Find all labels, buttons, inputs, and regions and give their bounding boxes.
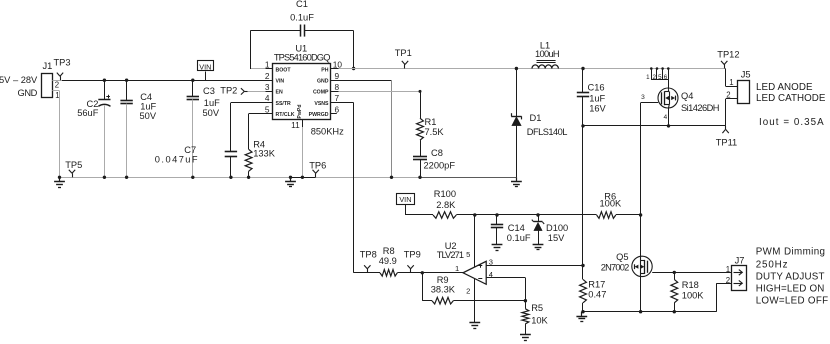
- capacitor C16 value: [589, 94, 605, 104]
- resistor R17: [580, 279, 587, 313]
- svg-text:2.8K: 2.8K: [436, 200, 456, 210]
- label DUTY ADJUST: [756, 272, 825, 283]
- ground (D100): [533, 244, 544, 249]
- transistor Q5 part number: [601, 263, 629, 273]
- U1 frequency note 850KHz: [311, 127, 344, 137]
- wire J5 pin2 to cathode line: [726, 99, 738, 126]
- test point TP6: [313, 170, 319, 178]
- svg-text:2: 2: [265, 71, 270, 81]
- svg-text:PWRGD: PWRGD: [309, 112, 329, 118]
- svg-text:TP2: TP2: [220, 86, 237, 96]
- diode D1 refdes: [530, 113, 542, 123]
- test point TP2 label: [220, 86, 237, 96]
- svg-text:C16: C16: [588, 83, 605, 93]
- svg-text:5: 5: [466, 250, 470, 259]
- capacitor C7 lead bottom: [229, 157, 232, 179]
- svg-text:VSNS: VSNS: [314, 101, 329, 107]
- capacitor C16: [577, 93, 589, 97]
- U1 pin number 5: [265, 104, 270, 114]
- capacitor C4 lead bottom: [125, 104, 128, 179]
- svg-text:3: 3: [641, 94, 645, 101]
- svg-text:VIN: VIN: [276, 79, 285, 85]
- svg-text:R18: R18: [682, 280, 699, 290]
- svg-text:16V: 16V: [589, 104, 606, 114]
- capacitor C8 lead bottom: [418, 160, 421, 179]
- svg-text:6: 6: [664, 74, 668, 81]
- svg-text:TP5: TP5: [65, 160, 82, 170]
- U1 pin number 7: [335, 93, 340, 103]
- svg-text:100K: 100K: [600, 198, 623, 208]
- resistor R6: [597, 212, 616, 219]
- U2 pin 4 wire (IN-): [486, 278, 525, 301]
- U1 pin 5 stub (RT/CLK): [266, 113, 274, 115]
- resistor R1 refdes: [425, 117, 437, 127]
- ground (D1): [511, 177, 522, 186]
- capacitor C4 rating: [140, 111, 157, 121]
- svg-text:R17: R17: [588, 279, 605, 289]
- wire TP2 to EN: [248, 91, 266, 93]
- capacitor C2 lead top: [103, 79, 106, 100]
- svg-text:2200pF: 2200pF: [424, 161, 456, 171]
- U2 pin 1 number: [455, 264, 459, 273]
- wire R8 to op-amp output: [397, 271, 463, 274]
- connector J1 refdes: [43, 61, 53, 71]
- capacitor C2 lead bottom: [103, 105, 106, 179]
- capacitor C3 value: [204, 98, 220, 108]
- U2 pin 5 wire (V+): [474, 215, 476, 267]
- wire R9 branch: [422, 273, 432, 301]
- resistor R9 refdes: [437, 275, 449, 285]
- svg-text:0.1uF: 0.1uF: [507, 233, 531, 243]
- svg-text:50V: 50V: [140, 111, 157, 121]
- J1 pin 1 stub: [52, 90, 59, 92]
- wire VSNS down: [339, 103, 354, 273]
- wire LED cathode line: [581, 124, 725, 127]
- svg-text:C7: C7: [184, 145, 196, 155]
- svg-text:TLV271: TLV271: [437, 250, 464, 260]
- zener D100 refdes: [546, 223, 568, 233]
- transistor Q4 refdes: [681, 91, 693, 101]
- wire ground rail top (dark right part): [419, 177, 517, 179]
- wire R9 to R5 node: [453, 299, 527, 302]
- U1 pin name BOOT: [276, 67, 292, 73]
- U1 pin number 11: [291, 120, 300, 130]
- capacitor C2: [98, 95, 110, 107]
- svg-text:5: 5: [658, 74, 662, 81]
- U1 pin 4 stub (SS/TR): [266, 102, 274, 104]
- svg-text:LED CATHODE: LED CATHODE: [756, 93, 826, 104]
- test point TP9: [407, 265, 413, 273]
- IC U1 body: [273, 64, 331, 120]
- svg-text:R5: R5: [531, 303, 543, 313]
- IC U1 part number: [274, 53, 330, 63]
- svg-text:850KHz: 850KHz: [311, 127, 344, 137]
- test point TP11 label: [716, 137, 738, 147]
- svg-text:TPS54160DGQ: TPS54160DGQ: [274, 53, 330, 63]
- svg-text:R1: R1: [425, 117, 437, 127]
- svg-text:R100: R100: [434, 189, 456, 199]
- capacitor C16 rating: [589, 104, 606, 114]
- label PWM Dimming: [756, 247, 826, 258]
- U1 pin name PWRGD: [309, 112, 329, 118]
- svg-text:J7: J7: [735, 256, 745, 266]
- svg-text:TP6: TP6: [309, 161, 326, 171]
- capacitor C14 lead bottom: [496, 228, 498, 245]
- power flag VIN (input): [198, 61, 214, 81]
- svg-text:PWM Dimming: PWM Dimming: [756, 247, 826, 258]
- svg-text:1uF: 1uF: [204, 98, 220, 108]
- resistor R4 value: [253, 148, 276, 158]
- svg-text:GND: GND: [317, 79, 329, 85]
- resistor R4: [245, 149, 252, 171]
- svg-text:38.3K: 38.3K: [431, 285, 456, 295]
- U1 pin number 4: [265, 93, 270, 103]
- U1 pin number 6: [335, 104, 340, 114]
- resistor R18 refdes: [682, 280, 699, 290]
- svg-text:250Hz: 250Hz: [756, 259, 789, 270]
- capacitor C3 lead bottom: [191, 99, 194, 179]
- U1 pin name GND: [317, 79, 329, 85]
- capacitor C2 refdes: [87, 99, 99, 109]
- U1 pin name RT/CLK: [276, 112, 295, 118]
- label Iout = 0.35A: [759, 117, 825, 128]
- J5 pin 2 label: [726, 91, 730, 100]
- test point TP8 label: [360, 249, 377, 259]
- svg-text:TP12: TP12: [717, 50, 739, 60]
- svg-text:TP8: TP8: [360, 249, 377, 259]
- wire bias rail: [456, 213, 596, 216]
- capacitor C4 refdes: [140, 92, 152, 102]
- U1 pin name COMP: [313, 90, 329, 96]
- J1 pin 2 stub: [52, 80, 62, 82]
- U1 pin 1 stub (BOOT): [266, 68, 274, 70]
- svg-text:1: 1: [646, 74, 650, 81]
- ground (U2 pin2): [469, 323, 480, 329]
- J1 pin 1 label: [55, 91, 59, 100]
- wire Q4 gate: [641, 102, 659, 104]
- svg-text:2N7002: 2N7002: [601, 263, 629, 273]
- wire PH rail to J5 pin1: [726, 69, 738, 87]
- connector J5: [738, 81, 750, 104]
- op-amp U2: [463, 261, 486, 284]
- test point TP12 label: [717, 50, 739, 60]
- zener D100 value: [548, 233, 565, 243]
- op-amp U2 refdes: [445, 241, 457, 251]
- svg-text:7: 7: [335, 93, 340, 103]
- zener D100 lead bottom: [538, 231, 540, 245]
- svg-text:100K: 100K: [682, 290, 705, 300]
- svg-text:3: 3: [265, 82, 270, 92]
- svg-text:J1: J1: [43, 61, 53, 71]
- capacitor C8 refdes: [431, 148, 443, 158]
- resistor R1: [417, 118, 424, 140]
- svg-text:50V: 50V: [203, 108, 220, 118]
- resistor R4 lead bottom: [247, 171, 250, 179]
- svg-text:TP11: TP11: [716, 137, 738, 147]
- svg-text:VIN: VIN: [399, 195, 411, 204]
- resistor R6 value: [600, 198, 623, 208]
- capacitor C14: [491, 225, 503, 228]
- net label 5V - 28V input: [0, 75, 38, 85]
- transistor Q4 part number: [681, 103, 719, 113]
- ground (bottom rail): [576, 312, 587, 322]
- capacitor C7: [225, 152, 237, 157]
- wire Q4 gate down to Q5: [639, 103, 642, 314]
- U1 pin 3 stub (EN): [266, 91, 274, 93]
- svg-text:EN: EN: [276, 90, 283, 96]
- svg-text:0.1uF: 0.1uF: [290, 12, 314, 22]
- wire ground rail top (black mid segment): [291, 177, 316, 179]
- transistor Q4 drain lead: [668, 80, 670, 90]
- svg-text:TP1: TP1: [395, 48, 412, 58]
- svg-text:C3: C3: [203, 86, 215, 96]
- wire VIN rail: [62, 80, 266, 82]
- ground (C14): [492, 245, 503, 251]
- svg-text:133K: 133K: [253, 148, 276, 158]
- capacitor C14 refdes: [508, 223, 525, 233]
- capacitor C1 value: [290, 12, 314, 22]
- zener diode D100: [532, 220, 544, 231]
- svg-text:C4: C4: [140, 92, 152, 102]
- U1 pin name PwPd (rotated): [297, 104, 303, 118]
- resistor R6 refdes: [604, 192, 616, 202]
- capacitor C4 value: [140, 102, 156, 112]
- svg-text:C1: C1: [296, 0, 308, 9]
- U1 pin number 3: [265, 82, 270, 92]
- svg-text:1: 1: [726, 265, 730, 274]
- U1 pin name VSNS: [314, 101, 329, 107]
- wire L1 out to C16: [581, 67, 584, 93]
- U2 pin 2 number: [466, 286, 470, 295]
- svg-text:1: 1: [55, 91, 59, 100]
- connector J1: [42, 74, 53, 98]
- svg-text:0.47: 0.47: [588, 290, 606, 300]
- resistor R5: [522, 301, 529, 335]
- U1 pin name EN: [276, 90, 283, 96]
- svg-text:15V: 15V: [548, 233, 565, 243]
- svg-text:1: 1: [729, 78, 733, 87]
- test point TP3 label: [54, 58, 71, 68]
- U1 pin number 2: [265, 71, 270, 81]
- power flag VIN (op-amp supply): [397, 194, 415, 216]
- svg-text:TP9: TP9: [404, 249, 421, 259]
- svg-text:49.9: 49.9: [379, 256, 397, 266]
- wire J7 pin2 to ground rail: [717, 283, 732, 312]
- inductor L1 value: [535, 49, 559, 59]
- capacitor C3 lead top: [191, 79, 194, 97]
- svg-text:J5: J5: [741, 70, 751, 80]
- J1 pin 2 label: [55, 81, 59, 90]
- capacitor C1 refdes: [296, 0, 308, 9]
- wire PH rail: [339, 68, 726, 70]
- diode D1 to ground: [516, 126, 518, 178]
- J7 pin 1 label: [726, 265, 730, 274]
- svg-text:10K: 10K: [531, 315, 548, 325]
- J7 pin 2 arrow: [734, 280, 743, 286]
- wire BOOT loop left: [250, 31, 300, 70]
- test point TP9 label: [404, 249, 421, 259]
- connector J7: [732, 266, 747, 291]
- transistor Q4 source pin 4 label: [664, 114, 668, 121]
- U1 pin 7 stub (VSNS): [331, 102, 339, 104]
- wire COMP to R1: [339, 90, 422, 118]
- label HIGH=LED ON: [756, 283, 825, 294]
- U1 pin 2 stub (VIN): [266, 80, 274, 82]
- capacitor C7 value: [155, 154, 199, 164]
- diode D1: [511, 113, 521, 125]
- U1 pin name VIN: [276, 79, 285, 85]
- wire Q5 gate to J7 pin1: [652, 271, 732, 274]
- svg-text:2: 2: [466, 286, 470, 295]
- capacitor C3 refdes: [203, 86, 215, 96]
- resistor R100: [433, 212, 456, 219]
- label 250Hz: [756, 259, 789, 270]
- resistor R8 refdes: [383, 246, 395, 256]
- U1 pin 9 stub (GND): [331, 80, 339, 82]
- U1 pin 6 stub (PWRGD): [331, 113, 337, 115]
- capacitor C7 refdes: [184, 145, 196, 155]
- op-amp U2 part number: [437, 250, 464, 260]
- wire ground rail top (gray left part): [60, 177, 291, 179]
- svg-text:7.5K: 7.5K: [425, 127, 445, 137]
- svg-text:Q4: Q4: [681, 91, 693, 101]
- wire RT/CLK to R4: [249, 114, 266, 150]
- svg-text:DUTY ADJUST: DUTY ADJUST: [756, 272, 825, 283]
- svg-text:C8: C8: [431, 148, 443, 158]
- diode D1 part number: [527, 127, 567, 137]
- svg-text:D1: D1: [530, 113, 542, 123]
- U1 pin name PH: [321, 67, 328, 73]
- transistor Q5 refdes: [616, 252, 628, 262]
- svg-text:6: 6: [335, 104, 340, 114]
- svg-text:PH: PH: [321, 67, 328, 73]
- svg-text:PwPd: PwPd: [297, 104, 303, 118]
- wire sense node vertical: [581, 126, 584, 280]
- U1 pin 11 stub (PwPd): [302, 120, 304, 127]
- U2 pin 5 number: [466, 250, 470, 259]
- capacitor C16 lead bottom: [582, 97, 584, 126]
- svg-text:Si1426DH: Si1426DH: [681, 103, 719, 113]
- capacitor C4: [120, 101, 132, 104]
- U1 pin name SS/TR: [276, 101, 292, 107]
- svg-text:8: 8: [335, 82, 340, 92]
- wire R6 to Q4 gate node: [616, 213, 643, 216]
- svg-text:1uF: 1uF: [589, 94, 605, 104]
- resistor R17 value: [588, 290, 606, 300]
- svg-text:D100: D100: [546, 223, 568, 233]
- test point TP1 label: [395, 48, 412, 58]
- svg-text:4: 4: [664, 114, 668, 121]
- resistor R8: [380, 270, 397, 277]
- resistor R9 value: [431, 285, 456, 295]
- ground (left, at TP5): [54, 176, 65, 188]
- svg-text:1: 1: [455, 264, 459, 273]
- svg-text:GND: GND: [18, 88, 38, 98]
- resistor R18: [671, 272, 678, 313]
- test point TP5: [69, 170, 75, 178]
- J5 pin 1 label: [729, 78, 733, 87]
- U1 pin number 9: [335, 71, 340, 81]
- svg-text:RT/CLK: RT/CLK: [276, 112, 295, 118]
- wire U1 pin11 to ground: [301, 127, 304, 179]
- resistor R8 value: [379, 256, 397, 266]
- wire BOOT loop right: [304, 31, 355, 71]
- J7 pin 2 label: [726, 276, 730, 285]
- svg-text:1: 1: [265, 60, 270, 70]
- svg-text:56uF: 56uF: [77, 108, 99, 118]
- capacitor C14 lead top: [496, 215, 498, 224]
- svg-text:VIN: VIN: [199, 62, 211, 71]
- wire GND pin9: [339, 80, 394, 179]
- svg-text:HIGH=LED ON: HIGH=LED ON: [756, 283, 825, 294]
- svg-text:9: 9: [335, 71, 340, 81]
- resistor R100 refdes: [434, 189, 456, 199]
- test point TP8: [364, 265, 370, 273]
- svg-text:R8: R8: [383, 246, 395, 256]
- svg-text:100uH: 100uH: [535, 49, 559, 59]
- capacitor C1: [301, 25, 305, 37]
- op IC U1 refdes: [295, 43, 307, 53]
- svg-text:11: 11: [291, 120, 300, 130]
- wire ground rail bottom: [583, 311, 717, 313]
- label LOW=LED OFF: [756, 296, 829, 307]
- svg-text:4: 4: [265, 93, 270, 103]
- test point TP5 label: [65, 160, 82, 170]
- test point TP12: [721, 61, 727, 69]
- wire VSNS line to R8: [354, 272, 380, 274]
- wire SS/TR to C7: [231, 103, 266, 152]
- U1 pin number 10: [333, 60, 343, 70]
- transistor Q5: [632, 256, 652, 277]
- test point TP3: [57, 73, 63, 81]
- resistor R5 refdes: [531, 303, 543, 313]
- wire PH to D1: [515, 67, 518, 117]
- ground (R5): [520, 335, 531, 341]
- svg-text:TP3: TP3: [54, 58, 71, 68]
- wire J1 pin1 down: [59, 91, 61, 177]
- resistor R18 value: [682, 290, 705, 300]
- capacitor C16 refdes: [588, 83, 605, 93]
- capacitor C3 rating: [203, 108, 220, 118]
- transistor Q4 drain pins 1/2/5/6: [646, 67, 669, 81]
- capacitor C4 lead top: [125, 79, 128, 101]
- resistor R5 value: [531, 315, 548, 325]
- test point TP1: [402, 61, 408, 69]
- wire Q4 source down: [667, 108, 670, 128]
- resistor R4 refdes: [253, 140, 265, 150]
- zener D100 lead top: [538, 215, 540, 222]
- svg-text:LED ANODE: LED ANODE: [756, 82, 813, 93]
- U2 pin 2 wire (V-): [474, 279, 476, 323]
- wire VIN to R100: [405, 214, 433, 216]
- J7 pin 1 arrow: [734, 270, 743, 276]
- resistor R100 value: [436, 200, 456, 210]
- svg-text:5V – 28V: 5V – 28V: [0, 75, 38, 85]
- test point TP11: [722, 126, 728, 133]
- test point TP2: [241, 88, 248, 94]
- svg-text:Iout = 0.35A: Iout = 0.35A: [759, 117, 825, 128]
- svg-text:C14: C14: [508, 223, 525, 233]
- capacitor C3: [187, 97, 199, 100]
- resistor R9: [432, 297, 453, 304]
- svg-text:Q5: Q5: [616, 252, 628, 262]
- svg-text:2: 2: [652, 74, 656, 81]
- wire ground rail top (gray right part): [316, 177, 419, 179]
- transistor Q4 gate pin 3 label: [641, 94, 645, 101]
- resistor R1 to C8 lead: [420, 140, 422, 156]
- svg-text:BOOT: BOOT: [276, 67, 292, 73]
- U1 pin 10 stub (PH): [331, 68, 339, 70]
